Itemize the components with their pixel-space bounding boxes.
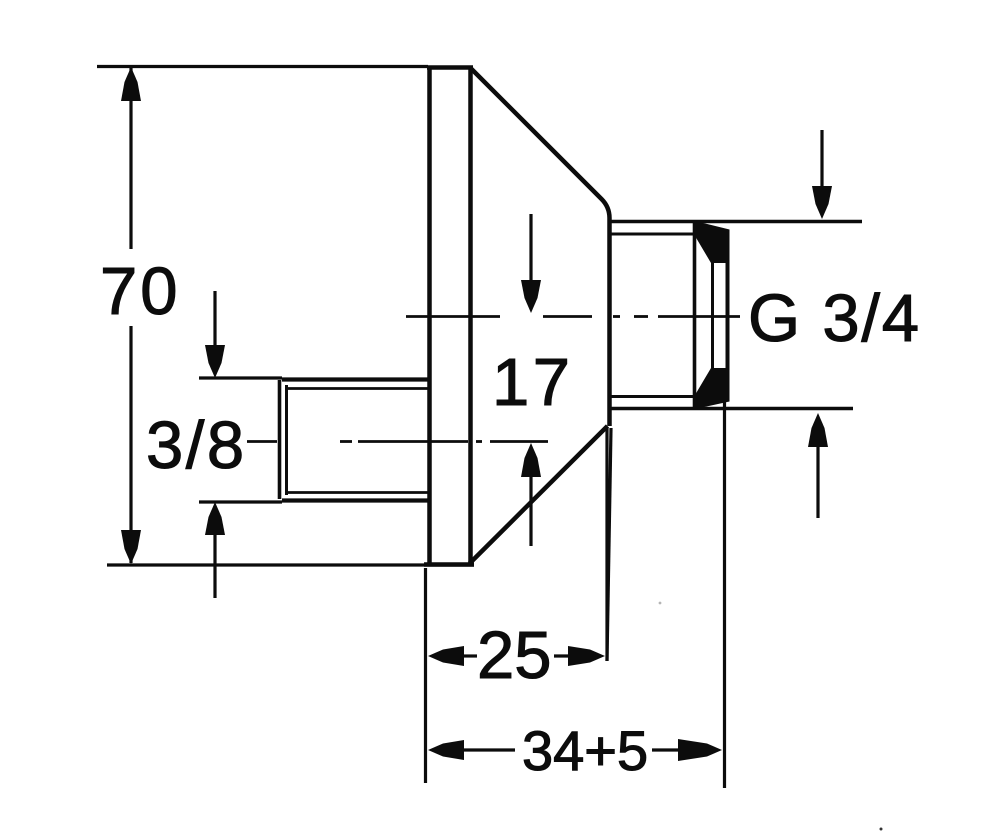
svg-text:34+5: 34+5 [522,719,648,782]
svg-text:G 3/4: G 3/4 [748,281,921,356]
svg-text:3/8: 3/8 [146,408,247,483]
svg-text:70: 70 [100,254,181,329]
svg-text:25: 25 [477,618,552,693]
svg-text:17: 17 [492,345,574,420]
